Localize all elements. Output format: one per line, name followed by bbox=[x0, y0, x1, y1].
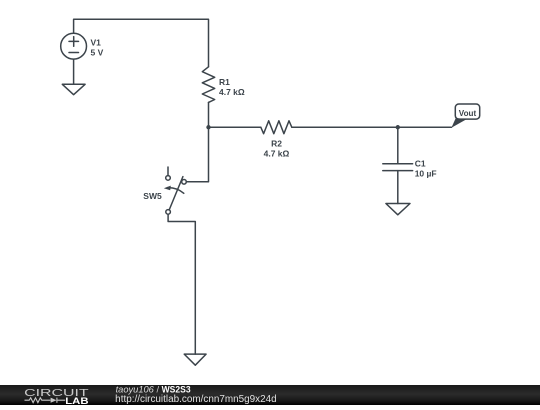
node A junction dot bbox=[206, 125, 210, 129]
CircuitLab logo diode bbox=[51, 398, 57, 403]
wire node B to C1 bbox=[397, 127, 399, 164]
wire node A to R2 bbox=[209, 126, 261, 128]
wire node A down to switch bbox=[186, 127, 208, 182]
footer bar bbox=[0, 385, 540, 405]
node B junction dot bbox=[396, 125, 400, 129]
svg-text:5 V: 5 V bbox=[91, 48, 104, 58]
resistor R2 bbox=[261, 121, 292, 134]
label R1 4.7 kOhm bbox=[219, 77, 245, 97]
svg-text:10 µF: 10 µF bbox=[415, 168, 437, 178]
svg-text:4.7 kΩ: 4.7 kΩ bbox=[219, 87, 245, 97]
wire V1 to ground bbox=[73, 60, 75, 85]
voltage source V1 bbox=[61, 33, 87, 59]
CircuitLab logo waveform resistor bbox=[25, 398, 51, 403]
svg-text:C1: C1 bbox=[415, 158, 426, 168]
ground below V1 bbox=[62, 84, 85, 94]
resistor R1 bbox=[202, 67, 214, 103]
wire R2 to Vout bbox=[292, 126, 452, 128]
label R2 4.7 kOhm bbox=[264, 139, 290, 159]
label V1 5 V bbox=[91, 37, 104, 57]
svg-text:http://circuitlab.com/cnn7mn5g: http://circuitlab.com/cnn7mn5g9x24d bbox=[115, 394, 277, 405]
net flag Vout bbox=[451, 104, 479, 128]
switch SW5 bbox=[164, 167, 187, 214]
ground bottom bbox=[184, 354, 206, 365]
wire C1 to ground bbox=[397, 171, 399, 204]
svg-text:LAB: LAB bbox=[65, 395, 88, 405]
svg-text:4.7 kΩ: 4.7 kΩ bbox=[264, 148, 290, 158]
svg-text:taoyu106 / WS2S3: taoyu106 / WS2S3 bbox=[116, 385, 191, 394]
capacitor C1 bbox=[383, 164, 413, 171]
svg-text:R1: R1 bbox=[219, 77, 230, 87]
ground below C1 bbox=[386, 204, 410, 215]
svg-text:Vout: Vout bbox=[459, 109, 477, 118]
svg-text:SW5: SW5 bbox=[143, 191, 162, 201]
label C1 10 uF bbox=[415, 158, 437, 178]
svg-text:R2: R2 bbox=[271, 139, 282, 149]
wire top from V1 to R1 bbox=[74, 19, 209, 67]
wire R1 bottom to node A bbox=[208, 102, 210, 127]
wire switch to ground bbox=[168, 214, 195, 354]
svg-text:V1: V1 bbox=[91, 37, 102, 47]
